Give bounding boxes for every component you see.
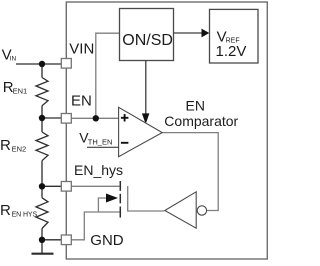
svg-text:TH_EN: TH_EN [88,137,113,146]
svg-text:VIN: VIN [69,40,94,57]
svg-text:IN: IN [10,55,17,62]
svg-text:1.2V: 1.2V [216,43,247,60]
svg-text:EN1: EN1 [13,86,28,95]
svg-text:R: R [0,202,11,219]
svg-text:GND: GND [90,232,124,249]
svg-text:EN2: EN2 [12,145,27,154]
svg-text:EN HYS: EN HYS [12,211,38,218]
svg-text:EN: EN [186,98,205,114]
svg-text:ON/SD: ON/SD [122,32,173,49]
svg-text:EN_hys: EN_hys [74,162,123,178]
svg-text:EN: EN [71,93,92,110]
svg-text:Comparator: Comparator [164,113,238,129]
svg-text:R: R [0,137,11,154]
